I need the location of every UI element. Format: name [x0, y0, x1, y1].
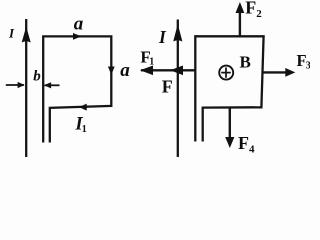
- force arrow F4 (down from bottom side): [229, 108, 231, 139]
- svg-text:a: a: [120, 60, 130, 81]
- force line F/F1 (leftward from loop through wire): [141, 69, 196, 71]
- current arrow on wire I (up): [173, 24, 182, 42]
- wire: straight wire carrying current I (right figure): [177, 20, 179, 158]
- svg-text:B: B: [240, 53, 251, 72]
- svg-text:4: 4: [249, 144, 255, 156]
- force arrow F2 (up from top side): [239, 10, 241, 36]
- dimension b: left segment with right-pointing arrow: [6, 84, 24, 86]
- svg-text:1: 1: [149, 57, 154, 68]
- svg-text:I: I: [158, 27, 167, 47]
- svg-text:3: 3: [306, 61, 310, 72]
- field symbol B (circle-plus, into page): [219, 66, 233, 80]
- current arrow on top side (right): [73, 33, 81, 40]
- svg-text:2: 2: [256, 8, 262, 20]
- current arrow on right side (down): [108, 67, 115, 75]
- arrowhead F (force on wire, leftmost): [140, 66, 153, 76]
- svg-text:1: 1: [82, 124, 87, 135]
- wire: long straight wire carrying current I: [25, 19, 27, 157]
- svg-text:F: F: [162, 76, 173, 96]
- svg-text:F: F: [238, 133, 249, 153]
- current arrow on bottom side (left): [79, 104, 87, 111]
- arrowhead F1 (force on loop left side): [170, 66, 183, 76]
- force arrow F3 (right from right side): [262, 71, 287, 73]
- svg-text:a: a: [74, 14, 84, 35]
- svg-text:F: F: [245, 0, 256, 18]
- current arrow on wire I (up): [22, 27, 31, 43]
- loop (left rectangular loop with leads): [43, 36, 111, 142]
- loop (right rectangular loop with leads): [195, 36, 263, 141]
- svg-text:b: b: [33, 68, 41, 84]
- svg-text:I: I: [8, 25, 15, 40]
- dimension b: right segment with left-pointing arrow: [45, 84, 60, 86]
